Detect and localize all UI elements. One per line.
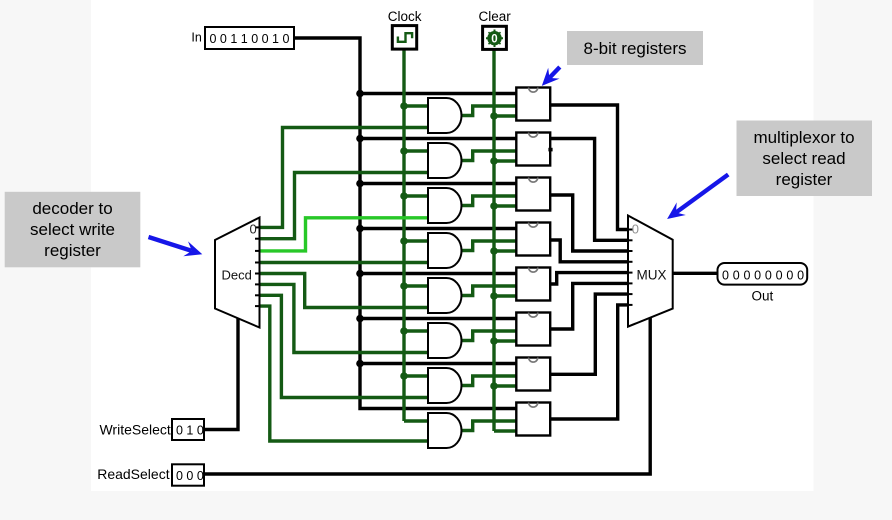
junction: In bus / register R4 data bbox=[356, 270, 364, 278]
wire: AND gate G3 output to register R3 clock pin bbox=[461, 241, 516, 251]
wire: AND gate G2 output to register R2 clock pin bbox=[461, 196, 516, 206]
input port In with binary value bbox=[191, 27, 294, 49]
junction: clock line / gate G4 bbox=[400, 282, 408, 290]
svg-text:0 1 0: 0 1 0 bbox=[176, 424, 204, 438]
callout arrow to MUX bbox=[676, 175, 728, 213]
svg-text:select write: select write bbox=[30, 220, 115, 239]
callout: 8-bit registers bbox=[567, 31, 703, 65]
wire: clock branch to AND gate G6 bbox=[404, 374, 428, 377]
wire: clear branch to register R6 bbox=[494, 384, 516, 387]
white schematic canvas bbox=[91, 0, 814, 491]
register R4 bbox=[516, 268, 550, 301]
junction: In bus / register R6 data bbox=[356, 360, 364, 368]
svg-text:decoder to: decoder to bbox=[32, 199, 112, 218]
and-gate G4 bbox=[428, 278, 461, 313]
wire: clock branch to AND gate G0 bbox=[404, 104, 428, 107]
wire: clock branch to AND gate G7 bbox=[404, 419, 428, 422]
wire: data branch to register R3 bbox=[360, 227, 516, 230]
register R0 bbox=[516, 88, 550, 121]
wire: register R6 output to MUX input 6 bbox=[550, 294, 628, 374]
wire: clear branch to register R1 bbox=[494, 159, 516, 162]
svg-text:8-bit registers: 8-bit registers bbox=[584, 39, 687, 58]
junction: clock line / gate G1 bbox=[400, 147, 408, 155]
wire: clear branch to register R4 bbox=[494, 294, 516, 297]
register R7 bbox=[516, 403, 550, 436]
and-gate G0 bbox=[428, 98, 462, 133]
wire: clock branch to AND gate G2 bbox=[404, 194, 428, 197]
svg-text:0: 0 bbox=[491, 34, 497, 46]
svg-text:0: 0 bbox=[250, 222, 257, 237]
svg-text:Clear: Clear bbox=[478, 9, 511, 24]
wire: clear branch to register R5 bbox=[494, 339, 516, 342]
junction: clock line / gate G0 bbox=[400, 102, 408, 110]
svg-text:In: In bbox=[191, 31, 201, 45]
wire: clock branch to AND gate G1 bbox=[404, 149, 428, 152]
wire: AND gate G6 output to register R6 clock pin bbox=[461, 376, 516, 386]
junction: clock line / gate G5 bbox=[400, 327, 408, 335]
wire: data branch to register R1 bbox=[360, 137, 516, 140]
svg-text:0 0 1 1 0 0 1 0: 0 0 1 1 0 0 1 0 bbox=[210, 32, 290, 46]
junction: clock line / gate G3 bbox=[400, 237, 408, 245]
svg-text:MUX: MUX bbox=[637, 267, 667, 282]
wire: clear branch to register R7 bbox=[494, 429, 516, 432]
output port Out with binary value bbox=[718, 263, 808, 304]
wire: decoder output 0 to AND gate G0 bbox=[260, 128, 429, 228]
callout: decoder to select write register bbox=[5, 192, 141, 267]
svg-text:register: register bbox=[776, 170, 833, 189]
wire: data branch to register R5 bbox=[360, 317, 516, 320]
register R2 bbox=[516, 178, 550, 211]
wire: decoder output 3 to AND gate G3 bbox=[260, 261, 429, 264]
wire: AND gate G4 output to register R4 clock pin bbox=[461, 286, 516, 296]
wire: clear branch to register R3 bbox=[494, 249, 516, 252]
clear source CLR bbox=[478, 9, 511, 49]
wire: decoder output 6 to AND gate G6 bbox=[260, 295, 429, 397]
junction: clear line / register R3 bbox=[490, 247, 498, 255]
callout: multiplexor to select read register bbox=[737, 121, 873, 197]
callout arrow to registers bbox=[549, 67, 559, 78]
svg-text:multiplexor to: multiplexor to bbox=[753, 128, 854, 147]
svg-text:Clock: Clock bbox=[388, 9, 422, 24]
junction: clear line / register R1 bbox=[490, 157, 498, 165]
clock source CLK bbox=[388, 9, 422, 49]
wire: clear branch to register R2 bbox=[494, 204, 516, 207]
ReadSelect port with value 000 bbox=[97, 464, 204, 485]
svg-text:Decd: Decd bbox=[222, 268, 252, 283]
wire: register R4 output to MUX input 4 bbox=[550, 273, 628, 284]
wire: decoder output 5 to AND gate G5 bbox=[260, 284, 429, 352]
wire: clock branch to AND gate G4 bbox=[404, 284, 428, 287]
junction: In bus / register R2 data bbox=[356, 180, 364, 188]
wire: data branch to register R0 bbox=[360, 92, 516, 95]
register R1 bbox=[516, 133, 550, 166]
junction: clear line / register R4 bbox=[490, 292, 498, 300]
svg-text:ReadSelect: ReadSelect bbox=[97, 466, 169, 482]
wire: clock branch to AND gate G3 bbox=[404, 239, 428, 242]
junction: In bus / register R5 data bbox=[356, 315, 364, 323]
svg-text:0 0 0: 0 0 0 bbox=[176, 469, 204, 483]
junction: In bus / register R0 data bbox=[356, 90, 364, 98]
wire: AND gate G0 output to register R0 clock pin bbox=[461, 106, 516, 116]
wire: register R5 output to MUX input 5 bbox=[550, 283, 628, 329]
register R3 bbox=[516, 223, 550, 256]
wire: Clock vertical distribution bbox=[402, 49, 405, 421]
svg-text:register: register bbox=[44, 241, 101, 260]
wire: decoder output 1 to AND gate G1 bbox=[260, 173, 429, 239]
wire: WriteSelect to decoder select input bbox=[204, 316, 238, 430]
and-gate G3 bbox=[428, 233, 462, 268]
wire: register R0 output to MUX input 0 bbox=[550, 105, 628, 230]
wire: AND gate G5 output to register R5 clock pin bbox=[461, 331, 516, 341]
wire: MUX output to Out box bbox=[673, 272, 718, 275]
register R6 bbox=[516, 358, 550, 391]
wire: decoder output 7 to AND gate G7 bbox=[260, 306, 429, 441]
junction: clear line / register R5 bbox=[490, 337, 498, 345]
callout arrow to decoder bbox=[149, 237, 192, 251]
wire: register R7 output to MUX input 7 bbox=[550, 305, 628, 419]
wire: AND gate G1 output to register R1 clock pin bbox=[461, 151, 516, 161]
and-gate G7 bbox=[428, 413, 462, 448]
junction: clear line / register R6 bbox=[490, 382, 498, 390]
WriteSelect port with value 010 bbox=[99, 419, 204, 440]
multiplexer U2 bbox=[628, 216, 673, 327]
wire: AND gate G7 output to register R7 clock pin bbox=[461, 421, 516, 431]
svg-text:0 0 0 0 0 0 0 0: 0 0 0 0 0 0 0 0 bbox=[722, 268, 804, 282]
and-gate G6 bbox=[428, 368, 462, 403]
wire: data branch to register R2 bbox=[360, 182, 516, 185]
wire: clock branch to AND gate G5 bbox=[404, 329, 428, 332]
svg-text:Out: Out bbox=[752, 289, 774, 304]
register R5 bbox=[516, 313, 550, 346]
and-gate G2 bbox=[428, 188, 462, 223]
junction: clock line / gate G2 bbox=[400, 192, 408, 200]
decoder U1 bbox=[215, 218, 260, 328]
junction: In bus / register R1 data bbox=[356, 135, 364, 143]
wire: register R2 output to MUX input 2 bbox=[550, 195, 628, 251]
svg-text:0: 0 bbox=[632, 222, 639, 237]
svg-text:select read: select read bbox=[762, 149, 845, 168]
wire: data branch to register R4 bbox=[360, 272, 516, 275]
svg-text:WriteSelect: WriteSelect bbox=[99, 422, 170, 438]
wire: In data bus from In box down the left vertical bbox=[294, 38, 516, 409]
wire: Clear vertical distribution bbox=[492, 49, 495, 431]
wire: decoder output 2 to AND gate G2 bbox=[260, 218, 429, 251]
wire: ReadSelect to MUX select input bbox=[204, 317, 650, 475]
and-gate G5 bbox=[428, 323, 462, 358]
wire: decoder output 4 to AND gate G4 bbox=[260, 274, 429, 308]
wire: register R3 output to MUX input 3 bbox=[550, 240, 628, 262]
wire: register R1 output to MUX input 1 bbox=[550, 139, 628, 241]
and-gate G1 bbox=[428, 143, 462, 178]
wire: data branch to register R6 bbox=[360, 362, 516, 365]
junction: clear line / register R2 bbox=[490, 202, 498, 210]
junction: In bus / register R3 data bbox=[356, 225, 364, 233]
junction: clear line / register R0 bbox=[490, 112, 498, 120]
register R1 output pin nub bbox=[548, 148, 552, 152]
junction: clock line / gate G6 bbox=[400, 372, 408, 380]
wire: clear branch to register R0 bbox=[494, 114, 516, 117]
